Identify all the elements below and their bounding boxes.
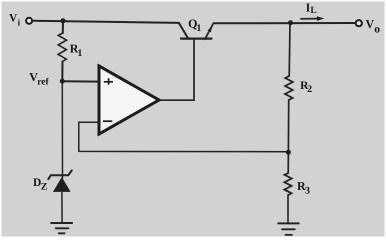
svg-text:ref: ref (37, 77, 49, 87)
svg-text:L: L (310, 6, 316, 16)
svg-text:o: o (374, 23, 380, 35)
svg-text:Z: Z (41, 181, 48, 192)
svg-text:1: 1 (196, 23, 201, 34)
svg-text:V: V (366, 17, 375, 31)
svg-text:2: 2 (307, 84, 312, 95)
svg-text:3: 3 (305, 186, 310, 197)
svg-text:1: 1 (77, 48, 82, 59)
